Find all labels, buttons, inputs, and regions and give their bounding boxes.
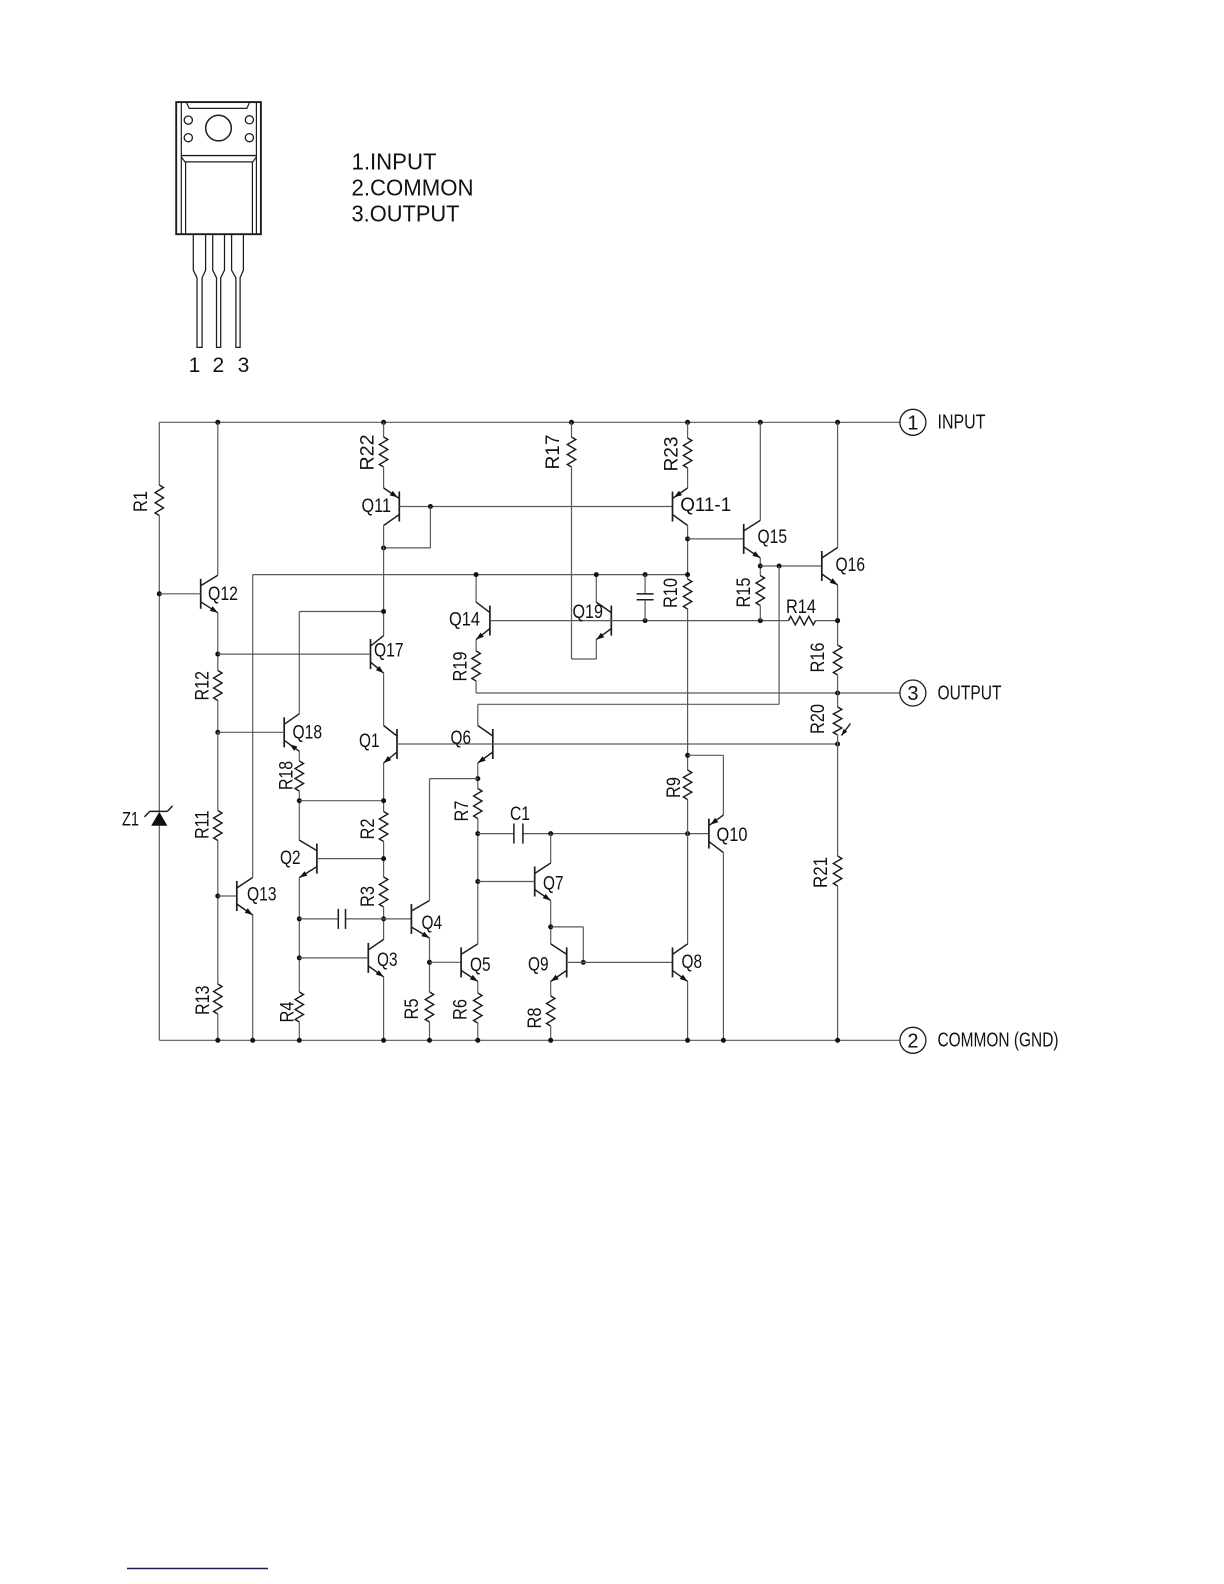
svg-text:Q8: Q8 <box>682 952 703 973</box>
svg-text:R7: R7 <box>452 801 473 822</box>
svg-text:1: 1 <box>907 412 918 434</box>
svg-text:R16: R16 <box>808 643 829 673</box>
svg-text:Q1: Q1 <box>359 731 380 752</box>
svg-text:R23: R23 <box>662 437 683 472</box>
svg-text:3: 3 <box>907 683 918 705</box>
svg-text:Q3: Q3 <box>377 950 398 971</box>
svg-text:Q6: Q6 <box>451 728 472 749</box>
svg-text:R22: R22 <box>357 435 378 471</box>
svg-text:C1: C1 <box>510 804 530 825</box>
svg-text:2.COMMON: 2.COMMON <box>352 174 474 200</box>
svg-text:R15: R15 <box>734 578 755 608</box>
svg-text:Q12: Q12 <box>208 584 238 605</box>
svg-text:Q17: Q17 <box>374 641 404 662</box>
svg-text:R9: R9 <box>664 777 685 798</box>
svg-text:1: 1 <box>189 354 201 377</box>
svg-text:2: 2 <box>907 1030 918 1052</box>
svg-text:3.OUTPUT: 3.OUTPUT <box>352 201 460 227</box>
svg-text:INPUT: INPUT <box>938 412 986 434</box>
svg-text:R17: R17 <box>543 435 564 470</box>
svg-text:Q5: Q5 <box>470 955 491 976</box>
svg-text:R3: R3 <box>358 886 379 907</box>
svg-text:Z1: Z1 <box>122 810 139 831</box>
svg-text:R21: R21 <box>811 857 832 888</box>
svg-text:Q15: Q15 <box>758 527 788 548</box>
svg-text:Q13: Q13 <box>247 885 277 906</box>
svg-text:OUTPUT: OUTPUT <box>938 682 1002 704</box>
svg-text:R20: R20 <box>808 704 829 734</box>
svg-text:Q19: Q19 <box>573 602 604 623</box>
svg-text:1.INPUT: 1.INPUT <box>352 148 437 174</box>
svg-text:2: 2 <box>213 354 225 377</box>
svg-text:R13: R13 <box>193 986 214 1016</box>
svg-text:R1: R1 <box>131 491 152 512</box>
svg-text:Q9: Q9 <box>528 955 549 976</box>
svg-text:R11: R11 <box>192 811 213 840</box>
svg-text:R19: R19 <box>451 652 472 682</box>
svg-text:R4: R4 <box>278 1001 299 1022</box>
svg-text:COMMON (GND): COMMON (GND) <box>938 1030 1059 1052</box>
svg-text:Q18: Q18 <box>293 723 323 744</box>
svg-text:Q11-1: Q11-1 <box>680 495 731 516</box>
svg-text:R10: R10 <box>661 578 682 608</box>
svg-text:Q7: Q7 <box>543 874 564 895</box>
svg-text:Q10: Q10 <box>717 825 748 846</box>
svg-text:R14: R14 <box>786 597 816 618</box>
svg-text:R5: R5 <box>402 999 423 1020</box>
svg-text:R6: R6 <box>450 999 471 1020</box>
svg-text:Q16: Q16 <box>836 555 866 576</box>
svg-text:Q11: Q11 <box>362 496 392 517</box>
svg-text:R2: R2 <box>358 819 379 840</box>
svg-text:Q14: Q14 <box>449 610 480 631</box>
svg-text:Q4: Q4 <box>422 913 443 934</box>
svg-text:Q2: Q2 <box>280 848 301 869</box>
svg-text:3: 3 <box>238 354 250 377</box>
svg-text:R8: R8 <box>525 1008 546 1029</box>
svg-text:R18: R18 <box>277 761 298 790</box>
svg-text:R12: R12 <box>192 671 213 701</box>
